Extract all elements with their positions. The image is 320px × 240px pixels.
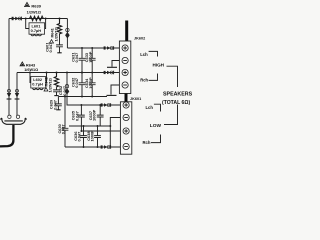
svg-text:0.047: 0.047 xyxy=(77,132,82,142)
bracket Rch LOW xyxy=(151,135,161,143)
node R642 top xyxy=(56,72,58,74)
svg-text:(TOTAL 6Ω): (TOTAL 6Ω) xyxy=(162,100,190,106)
svg-text:Rch: Rch xyxy=(143,140,151,145)
svg-text:LOW: LOW xyxy=(150,123,162,129)
svg-text:HIGH: HIGH xyxy=(153,62,165,67)
connector symbol mid (LOW feed) xyxy=(65,85,70,95)
capacitor C631 xyxy=(70,47,85,74)
bracket Lch LOW xyxy=(154,104,161,111)
connector JK601 xyxy=(120,102,131,154)
svg-text:Lch: Lch xyxy=(146,105,154,110)
connector pair on rail (JK602 pin1) xyxy=(104,46,114,50)
node L602 right xyxy=(46,72,48,74)
wire pin2 JK602 to chassis xyxy=(112,61,119,67)
capacitor C638 xyxy=(86,125,101,148)
capacitor C634 xyxy=(84,73,95,98)
wire vertical left2 (to plug pin2) xyxy=(16,73,18,116)
wire HIGH to speakers xyxy=(167,66,178,87)
node top-right of R639 xyxy=(45,18,47,20)
chassis ground pin2 xyxy=(107,66,117,68)
speaker cord xyxy=(0,125,13,146)
resistor R642 label xyxy=(44,76,53,92)
rail HIGH Lch+ xyxy=(67,47,119,49)
connector pair on rail (JK601 pin4) xyxy=(101,145,111,149)
bracket Rch HIGH xyxy=(149,74,158,81)
connector pin symbol on left wire xyxy=(7,89,12,99)
resistor R643 label xyxy=(20,62,38,72)
svg-text:0.047: 0.047 xyxy=(52,100,57,110)
svg-text:JK601: JK601 xyxy=(130,97,141,101)
capacitor C633 xyxy=(84,47,95,74)
connector symbol top (in Lch feed) xyxy=(65,28,70,38)
rail LOW Lch return xyxy=(69,125,110,127)
connector pair on rail (JK602 pin3) xyxy=(104,71,114,75)
resistor R642 xyxy=(54,73,58,88)
svg-text:0.047: 0.047 xyxy=(74,78,79,88)
svg-text:SPEAKERS: SPEAKERS xyxy=(163,92,193,98)
svg-text:R639: R639 xyxy=(31,3,41,8)
svg-text:Lch: Lch xyxy=(140,52,148,57)
rail ground mid xyxy=(58,96,107,98)
wire pin2 JK601 xyxy=(110,118,120,148)
wire pin4 JK602 to chassis xyxy=(111,85,119,95)
node top-left of R639 xyxy=(25,18,27,20)
wire LOW feed xyxy=(67,73,120,106)
thick stub between jacks xyxy=(125,93,128,101)
wire Rch xyxy=(17,72,119,74)
rail LOW bottom xyxy=(65,146,120,148)
capacitor C602 xyxy=(53,85,67,96)
capacitor C632 xyxy=(70,72,85,98)
resistor R639 label xyxy=(25,2,42,14)
chassis ground pin4 xyxy=(107,94,117,96)
capacitor C635 xyxy=(71,104,85,132)
svg-text:1/2W1Ω: 1/2W1Ω xyxy=(47,78,52,92)
capacitor C601 xyxy=(44,35,63,53)
svg-text:R643: R643 xyxy=(26,62,36,67)
connector CN input top xyxy=(12,17,22,21)
bracket Lch HIGH xyxy=(149,51,158,56)
svg-text:1/2W1Ω: 1/2W1Ω xyxy=(27,9,41,14)
rail LOW Rch+ xyxy=(81,130,120,132)
capacitor C629 xyxy=(49,97,62,110)
svg-text:0.047: 0.047 xyxy=(74,111,79,121)
capacitor C637 xyxy=(88,104,104,126)
svg-text:1000P: 1000P xyxy=(92,109,97,121)
wire Lch top xyxy=(9,18,67,20)
resistor R639 xyxy=(30,16,44,20)
svg-text:0.7µH: 0.7µH xyxy=(32,82,43,87)
svg-text:1/2W1Ω: 1/2W1Ω xyxy=(53,27,58,41)
node Rch feed xyxy=(66,72,68,74)
svg-text:JK602: JK602 xyxy=(134,37,145,41)
svg-text:0.7µH: 0.7µH xyxy=(31,28,42,33)
capacitor C630 xyxy=(57,96,69,148)
wire vertical left (to plug pin1) xyxy=(8,19,10,116)
resistor R641 label xyxy=(50,27,59,43)
wire top feed down xyxy=(66,19,68,49)
plug pins xyxy=(8,115,11,118)
svg-text:0.047: 0.047 xyxy=(48,43,53,53)
thick stub above JK602 xyxy=(125,21,128,42)
wire speakers to LOW xyxy=(164,105,178,125)
inductor L602 xyxy=(30,73,47,90)
ground tick under C601 xyxy=(57,52,61,54)
capacitor C636 xyxy=(73,125,87,148)
node L602 left xyxy=(29,72,31,74)
svg-text:1/6W1Ω: 1/6W1Ω xyxy=(24,68,38,72)
svg-text:Rch: Rch xyxy=(140,78,148,83)
resistor R641 xyxy=(57,19,61,35)
connector JK602 xyxy=(119,41,130,94)
plug body xyxy=(1,118,27,124)
svg-text:0.047: 0.047 xyxy=(74,53,79,63)
node R641 top xyxy=(59,18,61,20)
inductor L601 xyxy=(26,19,46,36)
connector pin symbol on left wire2 xyxy=(15,89,20,99)
connector pair on rail (JK601 pin1) xyxy=(101,103,111,107)
ground tick under C602 xyxy=(54,95,58,97)
svg-text:1000P: 1000P xyxy=(90,130,95,142)
